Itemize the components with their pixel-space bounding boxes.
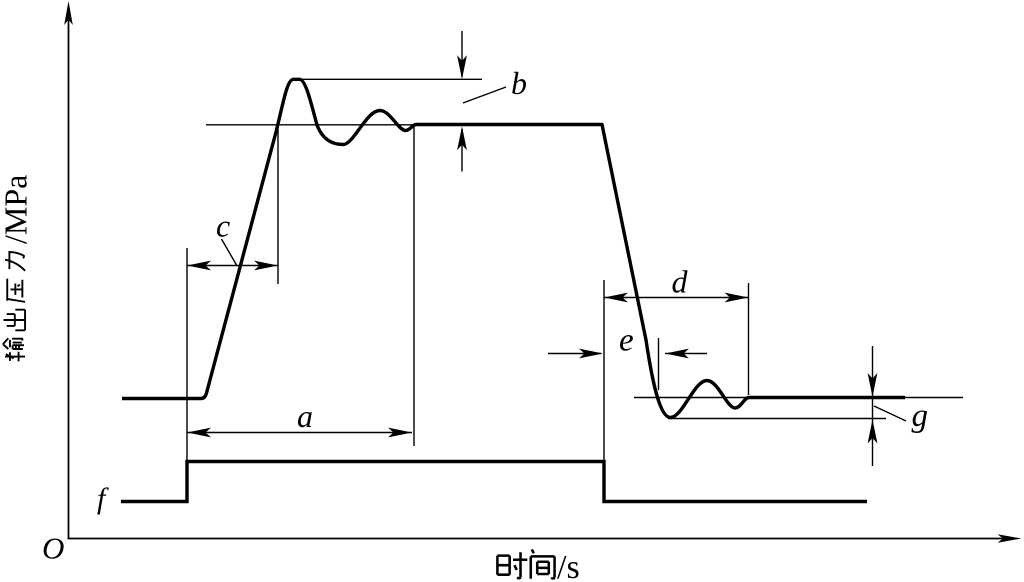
label b leader <box>463 87 506 103</box>
label g leader <box>874 406 906 421</box>
y-axis <box>64 1 73 539</box>
undershoot reference line (lower band bottom) <box>668 418 886 420</box>
dimension d right extension line <box>748 283 750 395</box>
dimension e tick <box>658 338 660 390</box>
dimension e left arrow <box>548 349 603 359</box>
dimension c arrow line <box>187 261 278 271</box>
dimension a right extension line <box>413 125 415 447</box>
svg-text:e: e <box>619 323 634 359</box>
y-axis label 输出压力/MPa <box>0 175 34 362</box>
dimension d left extension line <box>603 280 605 461</box>
svg-text:d: d <box>672 264 689 300</box>
svg-text:/s: /s <box>557 549 580 582</box>
svg-text:a: a <box>297 398 313 434</box>
svg-text:O: O <box>42 531 64 566</box>
dimension d arrow line <box>604 293 749 303</box>
dimension g lower arrow <box>868 420 878 444</box>
svg-text:c: c <box>216 208 230 244</box>
dimension g upper arrow <box>868 346 878 466</box>
pressure response curve <box>122 79 905 417</box>
x-axis <box>68 534 1022 543</box>
label c leader <box>222 239 237 265</box>
input step signal f <box>121 462 867 502</box>
dimension b lower arrow <box>457 126 467 171</box>
svg-text:f: f <box>97 482 109 515</box>
svg-text:g: g <box>912 398 929 434</box>
svg-text:b: b <box>511 65 527 101</box>
svg-text:/MPa: /MPa <box>0 175 34 244</box>
dimension e right arrow <box>665 349 707 359</box>
dimension c left extension line <box>186 248 188 463</box>
x-axis label 时间/s <box>497 549 579 582</box>
dimension a arrow line <box>187 428 412 438</box>
dimension b upper arrow <box>457 31 467 79</box>
dimension c right extension line <box>277 125 279 284</box>
final-level reference line (lower band top) <box>634 397 963 399</box>
peak-level reference line <box>294 78 482 80</box>
settled-level reference line (upper) <box>206 124 602 126</box>
